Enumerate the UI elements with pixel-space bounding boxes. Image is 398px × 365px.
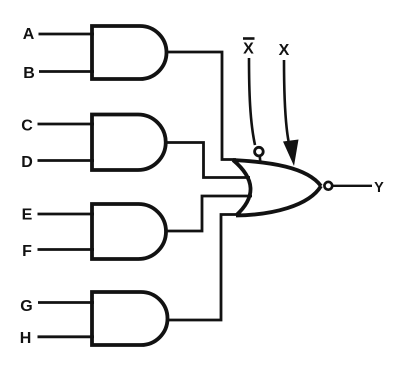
AND gate U1 (inputs A,B) <box>92 26 167 79</box>
overbar of X-bar <box>243 37 255 40</box>
svg-text:D: D <box>21 154 33 171</box>
svg-text:G: G <box>20 298 32 315</box>
svg-text:X: X <box>243 40 254 57</box>
svg-text:A: A <box>23 26 35 43</box>
wire U4 output to NOR bottom input <box>167 215 241 321</box>
svg-text:C: C <box>21 117 33 134</box>
wire U2 output to NOR input <box>165 143 250 178</box>
svg-text:X: X <box>279 42 290 59</box>
inverting bubble on X-bar input <box>255 147 264 156</box>
svg-text:F: F <box>22 243 32 260</box>
wire U3 output to NOR input <box>165 196 252 231</box>
wire C input <box>38 123 95 126</box>
svg-text:B: B <box>23 65 35 82</box>
NOR gate U5 (OR shape) <box>233 160 321 216</box>
wire G input <box>38 301 94 304</box>
AND gate U2 (inputs C,D) <box>92 115 166 171</box>
AND gate U3 (inputs E,F) <box>92 204 166 259</box>
AND gate U4 (inputs G,H) <box>92 292 168 345</box>
wire H input <box>38 335 95 338</box>
wire U1 output to NOR top input <box>166 52 236 160</box>
wire A input <box>39 33 95 36</box>
stem bubble to gate edge <box>258 157 261 162</box>
svg-text:H: H <box>20 330 32 347</box>
wire Y output <box>333 185 372 187</box>
solid arrow on X input <box>283 140 299 167</box>
svg-text:E: E <box>22 207 33 224</box>
output bubble of U5 <box>324 182 332 190</box>
wire F input <box>38 248 95 251</box>
wire B input <box>39 70 94 73</box>
svg-text:Y: Y <box>374 180 384 196</box>
wire X to arrow <box>284 60 289 141</box>
wire D input <box>38 159 95 162</box>
wire E input <box>38 213 95 216</box>
wire X-bar to bubble <box>249 58 255 145</box>
